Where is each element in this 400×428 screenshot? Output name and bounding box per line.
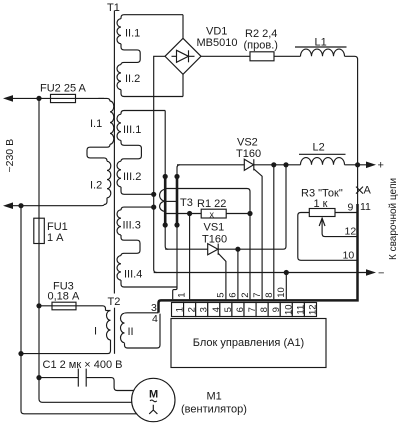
svg-text:II: II [128,326,134,338]
resistor R1 [197,198,226,219]
wire pin9 drop [273,165,275,299]
labels pin numbers 1-12 [175,304,319,315]
wire VS2 cathode to L2 [254,164,301,166]
inductor L2 [299,142,346,165]
svg-text:−: − [378,268,384,280]
svg-text:7: 7 [247,307,258,312]
wire R3 left to terminal 10 [298,213,358,261]
svg-text:5: 5 [216,293,227,298]
winding III.1 of T1 [117,111,165,141]
fuse FU1 [34,218,68,244]
svg-text:5: 5 [223,307,234,312]
wire II.2 to bridge bottom [182,74,184,96]
svg-text:0,18 А: 0,18 А [48,291,80,303]
svg-text:FU2 25 A: FU2 25 A [40,83,87,95]
svg-text:Т160: Т160 [236,148,261,160]
winding I of T2 [21,311,111,354]
connector pin row of A1 [172,303,317,317]
svg-text:8: 8 [259,307,270,312]
wire ~230V upper line with arrow [3,95,104,102]
svg-text:(вентилятор): (вентилятор) [181,404,247,416]
wire minus bus to pin 10 [285,273,287,300]
svg-text:VD1: VD1 [206,26,227,38]
transformer T2 core [114,308,116,354]
node FU2 junction [36,96,41,101]
winding I.2 of T1 [90,161,111,205]
svg-text:С1 2 мк × 400 В: С1 2 мк × 400 В [43,359,123,371]
winding II.1 of T1 [117,15,183,44]
capacitor C1 [39,359,134,391]
resistor R3 (potentiometer) [301,188,343,217]
svg-text:1: 1 [175,307,186,312]
wire jog III.1-III.2 [121,140,141,161]
svg-text:Т2: Т2 [108,296,121,308]
node T2 primary bottom junction [18,351,23,356]
node T3 bottom right [174,222,179,227]
node III.2 to minus bus junction [151,192,156,197]
winding III.2 of T1 [117,161,154,194]
thyristor VS1 [202,222,227,255]
node T3 top right [174,174,179,179]
wire R1 left to pin 2 [189,214,191,300]
svg-text:Блок управления (А1): Блок управления (А1) [193,337,304,349]
svg-text:I.1: I.1 [90,118,102,130]
labels wire numbers above connector [177,287,288,298]
svg-text:L2: L2 [313,142,325,154]
node T3 top left [163,174,168,179]
wire VS1 gate to pin 5 [218,253,226,299]
wire jog II.1-II.2 [121,44,140,65]
wire VS1 cathode to plus bus [218,165,286,249]
svg-text:2: 2 [187,307,198,312]
wire R3 wiper to terminal 12 [319,218,357,236]
wire jog III.3-III.4 [121,235,140,256]
node plus output junction [355,162,360,167]
svg-text:III.2: III.2 [123,171,141,183]
svg-text:6: 6 [235,307,246,312]
svg-text:+: + [378,160,384,172]
wire VS2 gate to pin 8 [254,169,262,299]
bridge rectifier VD1 [165,26,237,75]
svg-text:II.2: II.2 [125,73,140,85]
svg-text:4: 4 [211,307,222,312]
thyristor VS2 [236,137,261,171]
wire R3 right to terminal 9/11 [335,212,358,214]
svg-text:К сварочной цепи: К сварочной цепи [388,178,399,260]
terminal X A on plus drop [356,165,372,204]
svg-text:VS2: VS2 [237,137,258,149]
svg-text:9: 9 [348,202,354,214]
enclosure boundary thick line [159,204,358,313]
wire left bus A (x=21) to motor bottom [21,206,137,414]
svg-text:9: 9 [271,307,282,312]
wire T3 bottom lead to R1 left [166,213,202,215]
svg-text:II.1: II.1 [125,28,140,40]
svg-text:4: 4 [152,313,158,325]
wire FU3 line to T2 winding I [39,306,106,311]
svg-text:III.1: III.1 [123,124,141,136]
svg-text:III.3: III.3 [123,220,141,232]
node III.3 to minus bus junction [151,205,156,210]
wire R2 to L1 [274,55,301,57]
wire bridge left corner to minus bus [154,56,165,272]
winding III.3 of T1 [117,207,154,235]
wire II.1 to bridge top [182,15,184,39]
svg-text:12: 12 [345,226,357,238]
inductor L1 [295,37,347,57]
fuse FU2 [40,83,87,103]
wire R1 right to pin 7 [249,214,251,300]
wire plus output arrow [345,160,384,172]
node minus bus pin10 junction [284,270,289,275]
wire III.4 bottom to VS2 anode (through T3) [177,165,180,287]
wire T1-III.4/pin1 drop [173,287,177,299]
wire bridge right to R2 [201,55,250,57]
node R1 left junction [187,211,192,216]
node FU3 junction [36,303,41,308]
svg-text:2: 2 [240,293,251,298]
svg-text:Т3: Т3 [180,197,193,209]
svg-text:1: 1 [177,293,188,298]
wire VS1 anode line [165,248,208,250]
motor M1 (fan) [132,378,247,421]
svg-text:1 А: 1 А [47,232,64,244]
svg-text:(пров.): (пров.) [244,40,278,52]
T3 primary thick segment right [176,177,179,226]
winding I.1 of T1 [90,98,114,144]
wire L1 down to plus node [345,56,358,165]
svg-text:Т1: Т1 [107,2,120,14]
svg-text:11: 11 [295,305,306,315]
svg-text:3: 3 [199,307,210,312]
svg-text:L1: L1 [315,37,327,49]
resistor R2 [244,28,278,61]
svg-text:III.4: III.4 [124,269,142,281]
wire minus bus with arrow [154,268,385,280]
svg-text:1 к: 1 к [314,198,328,210]
svg-text:МВ5010: МВ5010 [197,37,238,49]
winding II.2 of T1 [117,65,183,97]
wire ~230V lower line with arrow [3,202,101,209]
node R1 right junction [247,211,252,216]
svg-text:R1 22: R1 22 [197,198,226,210]
node lower-line junction [18,203,23,208]
svg-text:10: 10 [276,287,287,298]
svg-text:10: 10 [283,304,294,315]
svg-text:~230 В: ~230 В [4,139,16,173]
node plus-bus VS1 junction [283,162,288,167]
svg-text:11: 11 [360,201,371,213]
transformer T1 core [113,11,115,294]
fuse FU3 [48,281,80,310]
node VS1 cathode junction [235,247,240,252]
wire jog I.1-I.2 [87,144,110,161]
svg-text:I.2: I.2 [90,180,102,192]
wire R1 right to plus-loop [226,213,250,215]
svg-text:х: х [210,209,215,219]
node T3 bottom left [163,222,168,227]
block A1 control unit [171,319,326,368]
svg-text:М1: М1 [207,391,222,403]
transformer T3 secondary winding [160,189,193,211]
winding III.4 of T1 [117,256,177,287]
svg-text:М: М [149,389,158,401]
svg-text:12: 12 [307,304,318,315]
svg-text:VS1: VS1 [204,222,225,234]
svg-text:R2 2,4: R2 2,4 [245,28,277,40]
wire III.1 top to VS1 anode (through T3) [165,111,168,250]
wire VS1 cathode to pin 6 [237,249,239,299]
svg-text:I: I [94,326,97,338]
svg-text:10: 10 [343,250,355,262]
T3 primary thick segment left [164,177,167,226]
svg-text:7: 7 [252,293,263,298]
winding II of T2 [120,313,160,348]
svg-text:А: А [364,185,372,197]
svg-text:6: 6 [228,293,239,298]
wire left bus B (x=39) FU1 branch to motor [39,98,132,402]
node C1 junction [36,375,41,380]
wire VS2 anode line from T3 bus [177,164,244,166]
svg-text:8: 8 [264,293,275,298]
svg-text:Т160: Т160 [202,234,227,246]
node plus-bus pin9 junction [271,162,276,167]
wire T3 top lead to R1 right [166,189,251,214]
